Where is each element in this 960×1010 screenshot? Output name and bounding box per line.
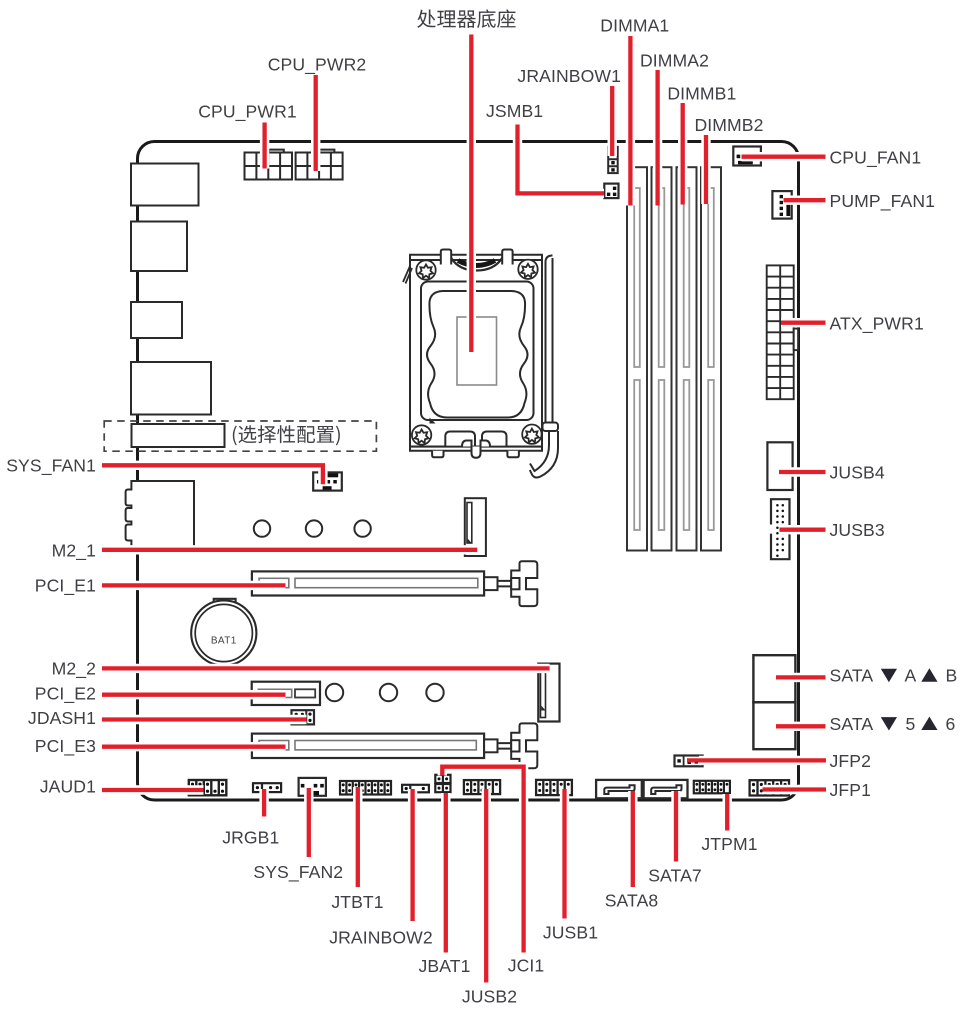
- leader line JRGB1: [262, 789, 266, 817]
- DIMM slots DIMMA1 DIMMA2 DIMMB1 DIMMB2: [627, 167, 721, 550]
- audio io block: [126, 481, 194, 547]
- leader line PCI_E1: [102, 583, 286, 587]
- leader line M2_1: [102, 548, 477, 552]
- svg-text:SYS_FAN1: SYS_FAN1: [6, 456, 96, 477]
- lever: [546, 258, 553, 423]
- connector SYS_FAN2: [299, 778, 326, 796]
- connector SATA A B: [753, 655, 795, 702]
- leader line DIMMA2: [655, 70, 659, 206]
- svg-text:A: A: [905, 666, 917, 686]
- M2_1 connector: [465, 498, 486, 556]
- svg-text:PCI_E2: PCI_E2: [35, 684, 96, 705]
- leader line SATA8: [631, 791, 635, 887]
- leader line JSMB1: [518, 125, 605, 194]
- connector CPU_PWR1: [245, 150, 293, 180]
- io block 4: [131, 362, 211, 415]
- PCI_E2 slot: [252, 682, 320, 705]
- svg-text:M2_2: M2_2: [52, 659, 96, 680]
- connector JTBT1: [340, 781, 391, 795]
- connector JUSB4: [767, 442, 792, 490]
- svg-text:DIMMB1: DIMMB1: [667, 84, 736, 104]
- leader line SATA 5 6: [776, 724, 826, 728]
- svg-text:DIMMB2: DIMMB2: [694, 115, 763, 135]
- leader line CPU_PWR1: [262, 123, 266, 169]
- red leader lines: [102, 35, 826, 983]
- leader line ATX_PWR1: [781, 321, 826, 325]
- svg-text:JTBT1: JTBT1: [331, 892, 383, 912]
- M2_1 standoff holes: [254, 520, 371, 536]
- screws: [412, 260, 542, 445]
- SATA label triangles: [881, 669, 897, 682]
- CPU socket (处理器底座): [403, 250, 558, 478]
- leader line DIMMA1: [628, 36, 632, 206]
- PCI_E1 slot: [252, 571, 484, 595]
- leader line JAUD1: [102, 788, 204, 792]
- connector JSMB1: [604, 184, 618, 199]
- leader line JCI1: [442, 767, 523, 953]
- svg-text:DIMMA1: DIMMA1: [600, 16, 669, 36]
- connector SATA7: [644, 780, 688, 798]
- svg-text:JDASH1: JDASH1: [28, 708, 96, 728]
- leader line JUSB4: [779, 470, 826, 474]
- PCI_E1 latch: [484, 561, 537, 606]
- leader line JTBT1: [356, 787, 360, 887]
- svg-text:CPU_PWR1: CPU_PWR1: [198, 102, 297, 123]
- leader line JFP2: [687, 758, 826, 762]
- svg-text:SATA7: SATA7: [648, 866, 702, 886]
- svg-text:DIMMA2: DIMMA2: [640, 51, 709, 71]
- leader line PCI_E2: [102, 693, 286, 697]
- pin1 triangle: [430, 418, 436, 424]
- connector JUSB2: [464, 780, 500, 794]
- leader line CPU_FAN1: [742, 155, 826, 159]
- svg-text:6: 6: [946, 714, 956, 734]
- connector JUSB3: [771, 499, 790, 559]
- connector JFP1: [750, 780, 789, 795]
- battery BAT1: [191, 599, 256, 666]
- svg-text:JSMB1: JSMB1: [486, 101, 543, 121]
- connector JRAINBOW1: [608, 147, 618, 173]
- leader line JDASH1: [102, 717, 307, 721]
- leader line JTPM1: [725, 794, 729, 831]
- svg-text:SATA8: SATA8: [605, 891, 659, 911]
- svg-text:JFP1: JFP1: [830, 780, 871, 800]
- svg-text:JRAINBOW2: JRAINBOW2: [329, 928, 433, 948]
- connector JDASH1: [292, 710, 315, 724]
- leader line PUMP_FAN1: [784, 198, 826, 202]
- svg-text:JUSB4: JUSB4: [830, 463, 885, 483]
- leader line M2_2: [102, 666, 550, 670]
- leader line DIMMB1: [681, 103, 685, 205]
- svg-text:SYS_FAN2: SYS_FAN2: [253, 862, 343, 883]
- leader line PCI_E3: [102, 745, 286, 749]
- connector JRGB1: [253, 783, 281, 792]
- PCI_E3 latch: [484, 723, 537, 768]
- svg-text:5: 5: [906, 714, 916, 734]
- svg-text:PUMP_FAN1: PUMP_FAN1: [830, 191, 936, 212]
- svg-text:SATA: SATA: [830, 714, 874, 734]
- svg-text:JRGB1: JRGB1: [222, 827, 279, 847]
- connector JTPM1: [694, 781, 730, 794]
- io block 1: [131, 164, 199, 206]
- io block 3: [131, 302, 182, 338]
- svg-text:JAUD1: JAUD1: [40, 776, 96, 796]
- socket bottom features: [445, 432, 475, 447]
- leader line JUSB3: [780, 528, 826, 532]
- svg-text:JBAT1: JBAT1: [419, 956, 471, 976]
- svg-text:PCI_E1: PCI_E1: [35, 575, 96, 596]
- leader line DIMMB2: [704, 135, 708, 204]
- svg-text:ATX_PWR1: ATX_PWR1: [830, 313, 924, 334]
- connector SATA 5 6: [753, 702, 795, 749]
- spring wire: [451, 258, 502, 271]
- io block 2: [131, 222, 187, 272]
- connector JCI1: [435, 775, 450, 783]
- red leader line casings: [102, 35, 826, 983]
- connector JUSB1: [536, 780, 572, 795]
- label 处理器底座 (CJK as paths): [417, 9, 515, 28]
- svg-text:JTPM1: JTPM1: [701, 834, 757, 854]
- leader line SYS_FAN1: [102, 465, 323, 484]
- leader line SYS_FAN2: [307, 788, 311, 857]
- connector SATA8: [596, 780, 642, 798]
- connector CPU_FAN1: [733, 147, 761, 166]
- svg-text:SATA: SATA: [830, 666, 874, 686]
- leader line JRAINBOW2: [410, 789, 414, 921]
- connector ATX_PWR1: [767, 265, 798, 399]
- load plate tabs: [441, 250, 451, 265]
- svg-text:CPU_PWR2: CPU_PWR2: [268, 55, 367, 76]
- connector JAUD1: [189, 780, 227, 795]
- connector SYS_FAN1: [313, 472, 342, 490]
- connector JFP2: [675, 756, 703, 767]
- leader line JRAINBOW1: [610, 86, 614, 156]
- svg-text:PCI_E3: PCI_E3: [35, 736, 96, 757]
- svg-text:CPU_FAN1: CPU_FAN1: [830, 147, 922, 168]
- connector PUMP_FAN1: [772, 191, 791, 219]
- connector JRAINBOW2: [402, 785, 429, 793]
- leader line SATA A B: [776, 675, 826, 679]
- leader line CPU_PWR2: [314, 75, 318, 171]
- io block 5: [132, 424, 225, 447]
- board outline: [138, 142, 799, 801]
- dashed optional box (选择性配置): [104, 421, 376, 451]
- svg-text:JRAINBOW1: JRAINBOW1: [517, 66, 621, 86]
- svg-text:JUSB3: JUSB3: [830, 520, 885, 540]
- leader line JUSB2: [484, 789, 488, 983]
- svg-text:JCI1: JCI1: [508, 956, 545, 976]
- leader line JBAT1: [444, 793, 448, 953]
- svg-text:JUSB1: JUSB1: [543, 923, 598, 943]
- svg-text:M2_1: M2_1: [52, 540, 96, 561]
- svg-text:B: B: [946, 666, 958, 686]
- connector CPU_PWR2: [296, 150, 343, 180]
- svg-text:JUSB2: JUSB2: [462, 987, 517, 1007]
- leader line 处理器底座 (CPU socket): [469, 35, 473, 353]
- leader line SATA7: [674, 791, 678, 862]
- PCI_E3 slot: [252, 734, 484, 758]
- leader line JUSB1: [562, 789, 566, 919]
- svg-text:JFP2: JFP2: [830, 751, 871, 771]
- label (选择性配置) (CJK as paths): [233, 425, 340, 445]
- M2_2 connector: [538, 664, 559, 722]
- svg-text:BAT1: BAT1: [211, 636, 237, 647]
- leader line JFP1: [763, 787, 827, 791]
- connector JBAT1: [435, 784, 450, 792]
- M2_2 standoff holes: [326, 684, 444, 701]
